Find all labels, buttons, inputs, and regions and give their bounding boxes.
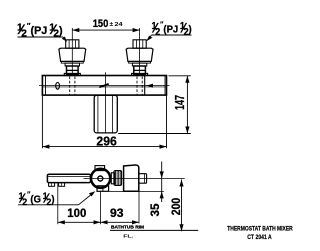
bottom outlet under valve body — [97, 186, 109, 192]
bathtub rim line — [110, 225, 198, 239]
side view centerline — [84, 177, 185, 179]
dimension 35 — [148, 162, 164, 217]
dimension 150±24 — [72, 18, 139, 32]
svg-text:CT 2041 A: CT 2041 A — [247, 234, 272, 241]
svg-text:BATHTUB RIM: BATHTUB RIM — [111, 225, 144, 230]
svg-text:150: 150 — [93, 18, 109, 30]
temperature knob stub — [139, 174, 147, 184]
label 1/2"(PJ1/2) right — [146, 20, 191, 41]
dimension 100 — [58, 206, 101, 224]
title text — [227, 225, 293, 241]
svg-text:35: 35 — [148, 203, 162, 216]
dimension 296 — [42, 96, 166, 149]
svg-text:200: 200 — [169, 197, 183, 215]
dimension 93 — [101, 206, 140, 224]
shower holder (front view, below body) — [94, 95, 117, 133]
bath spout (side) — [47, 174, 90, 182]
svg-text:147: 147 — [172, 95, 187, 110]
svg-text:24: 24 — [115, 22, 124, 28]
svg-text:THERMOSTAT BATH MIXER: THERMOSTAT BATH MIXER — [227, 225, 293, 232]
dimension 147 — [118, 76, 191, 134]
right inlet connector — [126, 28, 153, 95]
svg-text:±: ± — [110, 21, 114, 28]
label 1/2"(G1/2) — [18, 191, 95, 207]
mixer body (front view) — [42, 76, 166, 96]
svg-text:296: 296 — [96, 135, 116, 149]
left inlet connector — [59, 28, 86, 95]
fixture vertical centerline — [105, 72, 107, 133]
dimension 200 — [169, 180, 183, 232]
extension line from valve center — [100, 192, 102, 225]
flange between body and handle — [111, 173, 115, 184]
spout outlet tabs — [49, 183, 65, 187]
knurled ring — [114, 171, 122, 186]
extension line from spout outlet — [57, 183, 59, 224]
top stub on valve body — [95, 166, 105, 171]
valve body circle — [91, 169, 110, 188]
thermostat handle — [124, 165, 139, 191]
screw port oval — [56, 82, 60, 89]
svg-text:93: 93 — [110, 206, 124, 220]
body centerline — [39, 84, 170, 88]
extension line from handle end — [138, 192, 140, 224]
svg-text:FL.: FL. — [123, 234, 133, 239]
svg-text:100: 100 — [67, 206, 86, 220]
label 1/2"(PJ1/2) left — [17, 21, 67, 42]
extension line at outlet bottom level — [109, 190, 164, 192]
